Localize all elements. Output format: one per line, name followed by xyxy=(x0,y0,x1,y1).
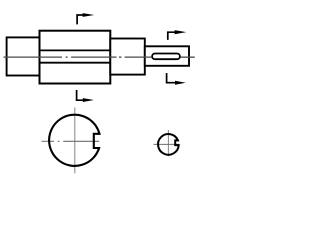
wire: big section horizontal center line dash 1 xyxy=(42,140,55,142)
wire: main horizontal center line dash 1 xyxy=(4,56,63,58)
wire: keyway lower edge line in large body xyxy=(40,62,111,64)
node: lower-right section arrowhead xyxy=(175,81,186,85)
node: middle step rectangle xyxy=(110,39,145,75)
wire: main center line dash 2 xyxy=(71,56,116,58)
node: keyseat slot on thin shaft (stadium) xyxy=(152,54,180,60)
node: small section circle with keyway notch xyxy=(158,134,179,155)
node: large middle body rectangle xyxy=(40,31,111,84)
wire: small section horizontal center line xyxy=(154,143,180,145)
node: big section circle with keyway notch xyxy=(49,115,99,166)
wire: main center line dot 1 xyxy=(66,56,68,58)
node: upper-right section arrowhead xyxy=(175,30,187,34)
node: left small journal rectangle xyxy=(7,37,40,75)
wire: big section vertical center line xyxy=(74,107,76,173)
wire: upper-right cutting plane mark xyxy=(168,32,176,40)
node: lower-left section arrowhead xyxy=(83,98,94,102)
wire: small section vertical center line xyxy=(167,130,169,156)
wire: keyway upper edge line in large body xyxy=(40,49,111,51)
wire: upper-left cutting plane mark xyxy=(77,15,85,24)
shaft engineering drawing with two removed section views xyxy=(0,0,198,179)
wire: main center line dot 2 xyxy=(119,56,122,58)
wire: big section horizontal center line dash 2 xyxy=(63,140,99,142)
wire: lower-left cutting plane mark xyxy=(77,90,86,100)
wire: lower-right cutting plane mark xyxy=(167,73,177,83)
wire: main center line dash 4 (right of slot) xyxy=(181,56,195,58)
wire: main center line dash 3 xyxy=(125,56,152,58)
wire: big section horizontal center line dot xyxy=(58,140,60,142)
node: right thin shaft rectangle xyxy=(145,46,189,66)
node: upper-left section arrowhead xyxy=(83,13,95,17)
